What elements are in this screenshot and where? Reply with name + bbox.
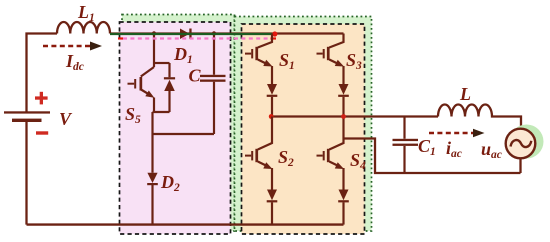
S1 emitter arrowhead	[263, 60, 272, 67]
battery minus sign	[36, 131, 48, 134]
current arrow iac	[429, 129, 485, 138]
diode of S2 leg	[267, 190, 278, 225]
transistor S4 (IGBT)	[317, 139, 344, 190]
diode D2	[147, 173, 158, 185]
battery V	[4, 111, 50, 224]
svg-text:V: V	[59, 109, 73, 129]
magenta dashed highlight line	[123, 37, 270, 39]
capacitor C	[153, 34, 226, 135]
S4 emitter arrowhead	[335, 162, 344, 169]
wire S5 bottom node bar	[153, 111, 170, 113]
diode D1 (series on top rail)	[180, 29, 192, 40]
dashed box pink (boost stage)	[120, 22, 231, 234]
green highlight line on dc link	[110, 33, 273, 35]
svg-text:L1: L1	[77, 2, 95, 24]
wire bottom rail	[27, 223, 344, 225]
svg-text:C: C	[189, 66, 202, 86]
diode anti-parallel with S5	[154, 63, 175, 112]
inductor L (output filter)	[438, 105, 521, 129]
dashed box green A (behind boost stage)	[122, 15, 235, 232]
battery plus sign	[35, 92, 48, 105]
S3 emitter arrowhead	[335, 60, 344, 67]
ac source uac	[506, 129, 536, 173]
current arrow Idc	[43, 42, 102, 51]
node junction top wire / C	[212, 31, 216, 35]
dashed box green B (behind bridge stage)	[235, 17, 372, 232]
node red junction dot	[272, 31, 277, 36]
wire S5 branch drop	[153, 34, 155, 68]
svg-text:L: L	[459, 84, 471, 104]
S5 emitter arrowhead	[145, 91, 154, 98]
wire output B (lower output path)	[344, 139, 521, 174]
dashed box orange (bridge stage)	[242, 24, 365, 234]
inductor L1	[57, 22, 110, 34]
node red dot left-leg midpoint	[269, 114, 274, 119]
wire bridge mid rail to output	[272, 115, 438, 117]
node junction crossing	[341, 114, 346, 119]
transistor S5 (IGBT)	[128, 67, 155, 112]
S2 emitter arrowhead	[263, 162, 272, 169]
node junction at top wire / S5 branch	[152, 31, 156, 35]
transistor S3 (IGBT)	[317, 34, 344, 85]
transistor S2 (IGBT)	[245, 117, 272, 190]
wire top rail	[27, 34, 344, 112]
svg-text:C1: C1	[418, 136, 436, 158]
diode of S3 leg	[338, 84, 349, 139]
svg-text:iac: iac	[446, 138, 462, 160]
diode of S1 leg	[267, 84, 278, 117]
svg-text:uac: uac	[481, 139, 502, 161]
wire D2 leg	[151, 112, 153, 225]
red dash right end	[271, 37, 277, 39]
red dash left end	[118, 37, 123, 39]
transistor S1 (IGBT)	[245, 34, 272, 85]
green glow behind source	[510, 125, 544, 159]
diode of S4 leg	[338, 190, 349, 225]
svg-text:Idc: Idc	[65, 51, 84, 73]
capacitor C1	[393, 117, 419, 174]
